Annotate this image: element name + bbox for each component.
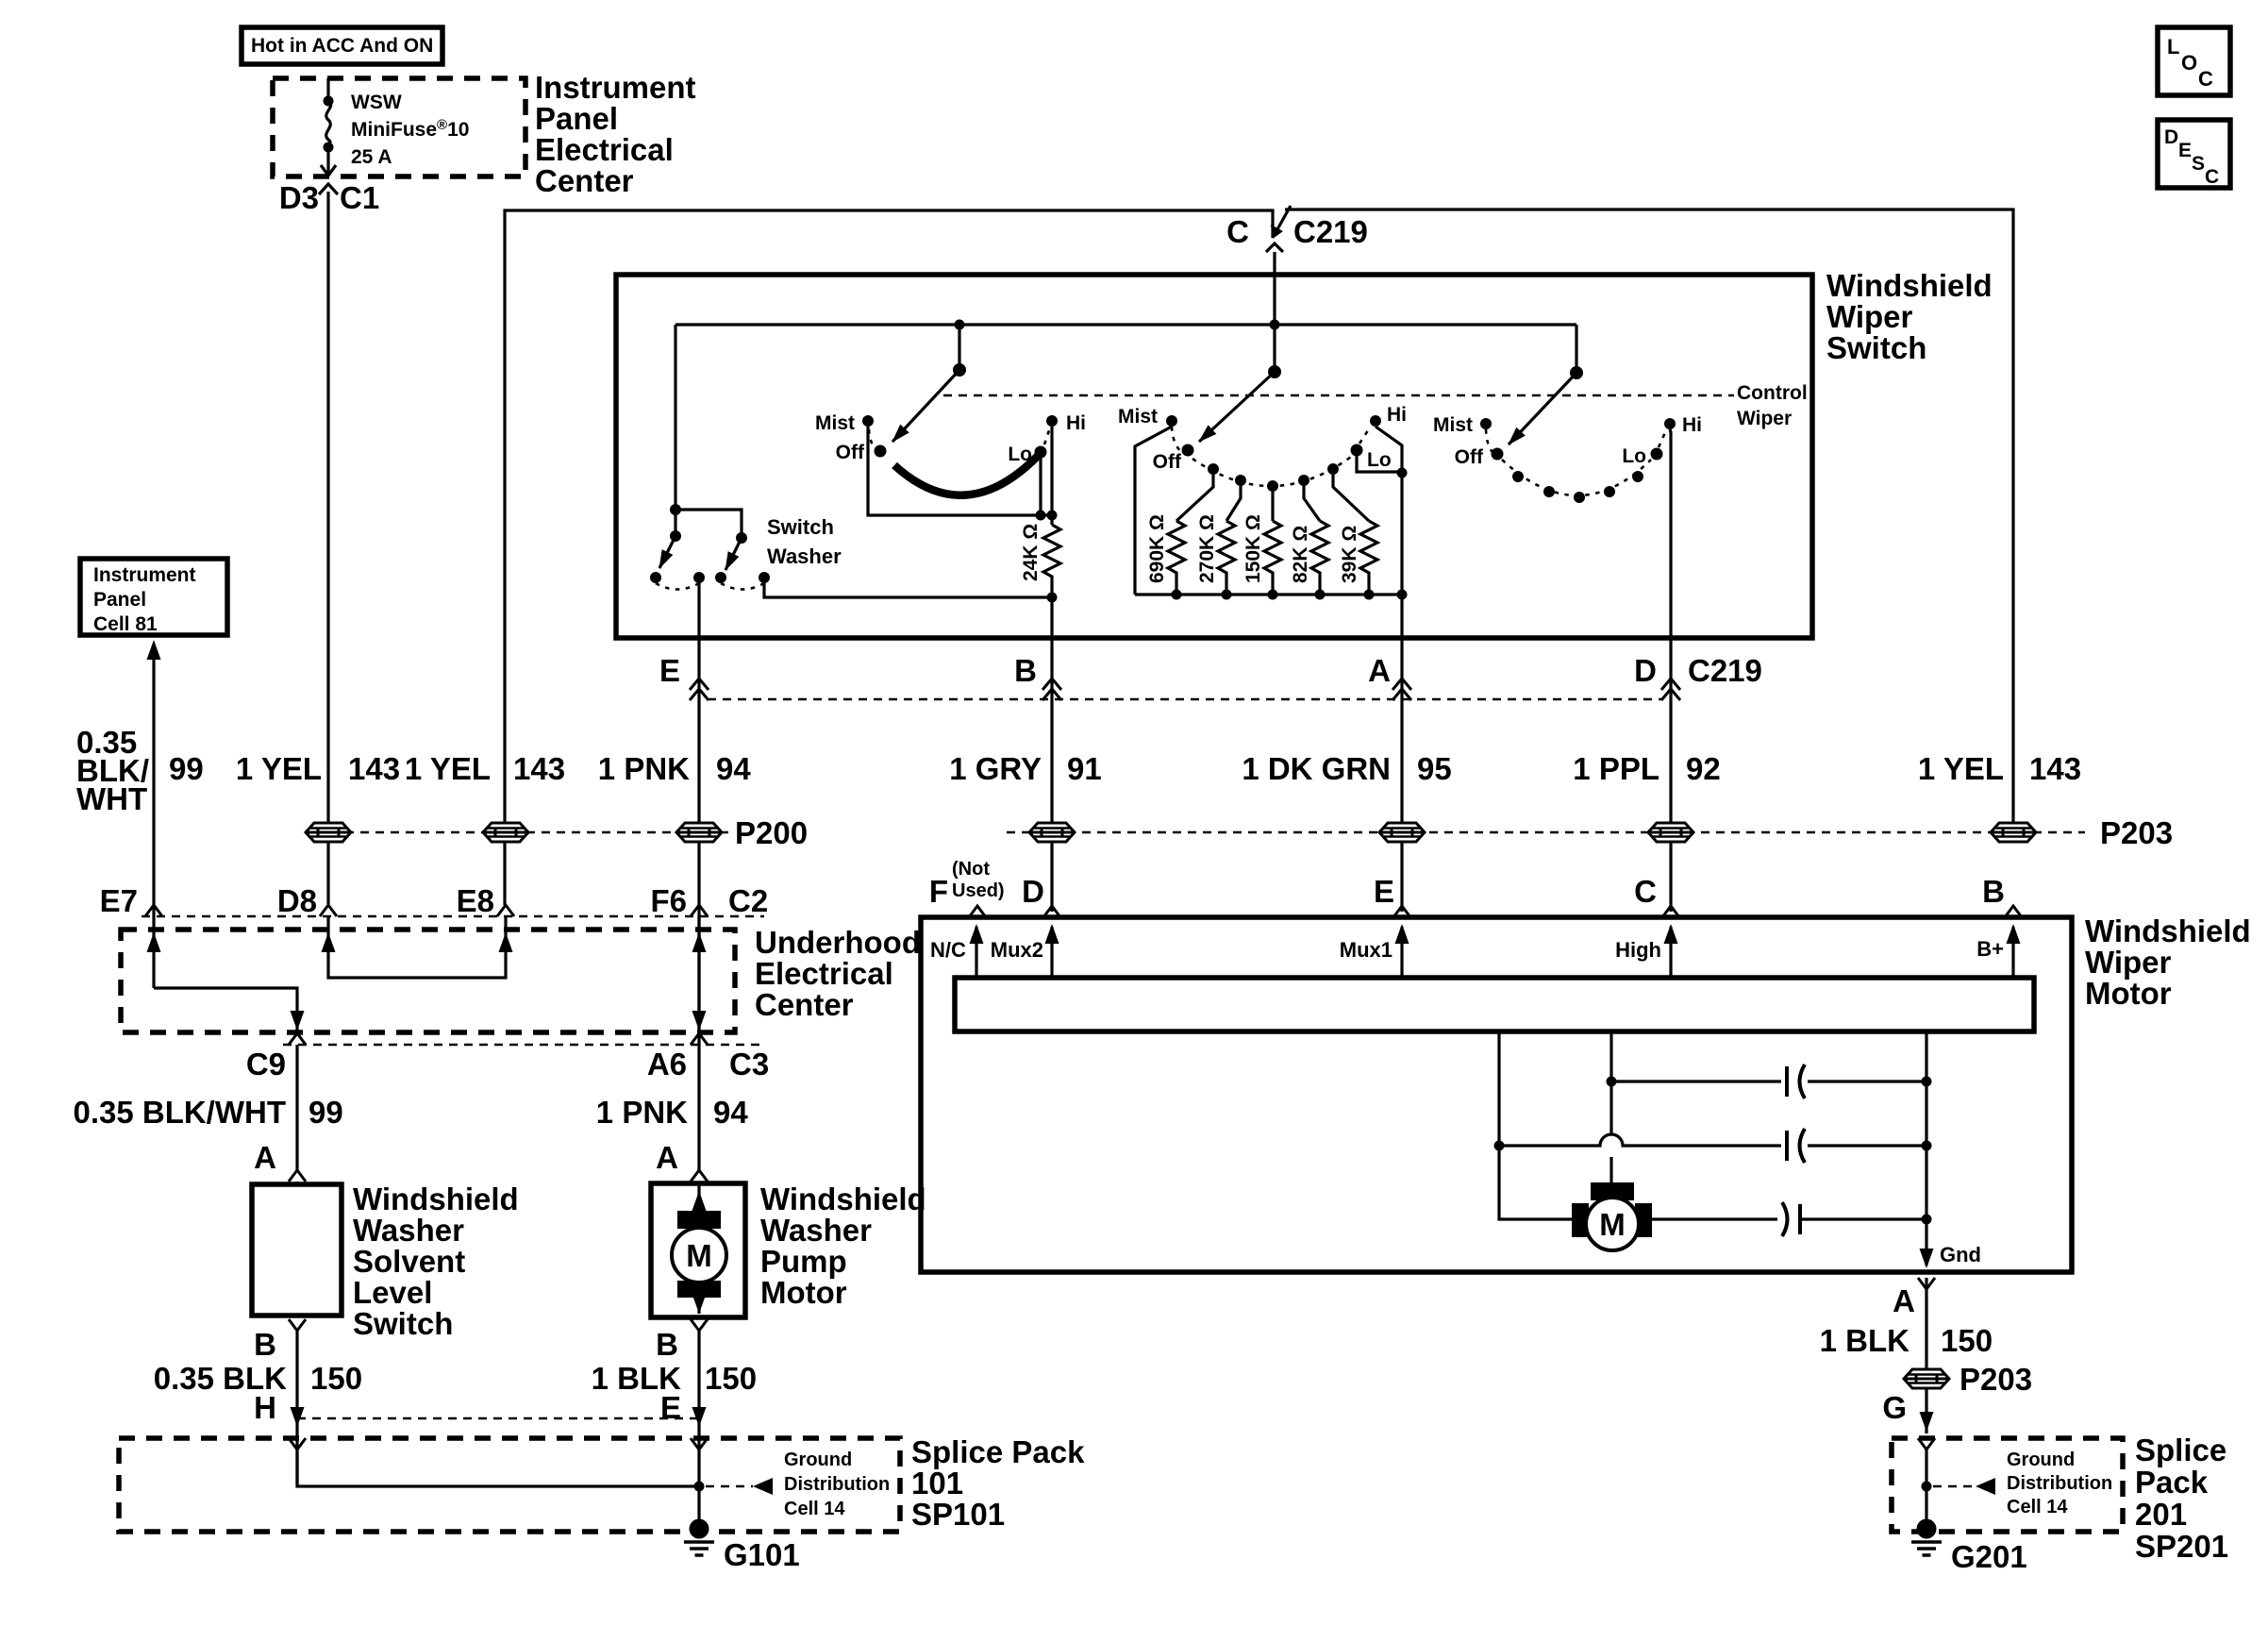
svg-text:E: E xyxy=(659,653,680,688)
grommet P200 on 1 YEL wire xyxy=(306,823,351,842)
wire gnd to P203 xyxy=(1925,1278,1927,1433)
Underhood Electrical Center dashed box xyxy=(121,930,735,1032)
DESC reference box xyxy=(2158,120,2230,188)
connector chevron E8 xyxy=(497,905,514,916)
connector chevron motor B xyxy=(2005,906,2022,917)
wire C2 to C3 through underhood center xyxy=(692,916,707,1031)
svg-text:99: 99 xyxy=(169,751,204,786)
pin High arrow xyxy=(1615,924,1677,978)
wire motor to capacitor 3 xyxy=(1652,1217,1777,1220)
wire capacitor 3 to ground column xyxy=(1800,1215,1932,1225)
wire module to motor armature xyxy=(1609,1031,1612,1081)
svg-text:E7: E7 xyxy=(100,883,138,918)
svg-text:D3: D3 xyxy=(279,180,319,215)
Windshield Wiper Motor box xyxy=(921,917,2072,1272)
svg-text:Mux1: Mux1 xyxy=(1340,938,1392,962)
svg-text:E: E xyxy=(2178,140,2192,161)
grommet P200 dashed row xyxy=(330,831,728,834)
connector chevron motor C xyxy=(1662,906,1679,917)
connector chevron solvent B xyxy=(289,1319,306,1331)
connector chevrons pin A xyxy=(1392,679,1411,700)
label 1 YEL 143 first xyxy=(236,751,400,786)
svg-text:1 BLK: 1 BLK xyxy=(1820,1323,1910,1358)
svg-text:D8: D8 xyxy=(277,883,317,918)
svg-text:P200: P200 xyxy=(735,815,808,850)
LOC reference box xyxy=(2158,27,2230,95)
pin Mux1 arrow xyxy=(1340,924,1409,978)
svg-text:M: M xyxy=(1599,1207,1626,1242)
svg-text:1 DK GRN: 1 DK GRN xyxy=(1242,751,1391,786)
node splice junction 101 xyxy=(694,1482,705,1492)
washer switch feed wire xyxy=(670,325,747,544)
svg-text:B+: B+ xyxy=(1976,937,2004,961)
connector chevron A pump xyxy=(691,1170,708,1182)
svg-text:1 GRY: 1 GRY xyxy=(949,751,1042,786)
wire capacitor row 2 with hop xyxy=(1494,1134,1932,1151)
svg-text:P203: P203 xyxy=(2100,815,2173,850)
svg-text:C9: C9 xyxy=(246,1047,286,1081)
svg-text:B: B xyxy=(1014,653,1037,688)
wire motor left leg xyxy=(1499,1146,1574,1219)
svg-text:143: 143 xyxy=(2029,751,2081,786)
svg-text:C2: C2 xyxy=(728,883,768,918)
svg-text:92: 92 xyxy=(1686,751,1721,786)
svg-text:L: L xyxy=(2167,35,2179,59)
switch 3 dashed throw arcs xyxy=(1486,429,1493,453)
resistor 270K ohm xyxy=(1196,486,1241,600)
svg-text:95: 95 xyxy=(1417,751,1452,786)
svg-text:E8: E8 xyxy=(457,883,494,918)
svg-text:150: 150 xyxy=(310,1361,362,1396)
grommet P200 on 1 PNK wire xyxy=(676,823,722,842)
label 1 PPL 92 xyxy=(1573,751,1720,786)
resistor 82K ohm xyxy=(1290,486,1328,600)
svg-text:High: High xyxy=(1615,938,1661,962)
wire C219 down into switch xyxy=(1273,252,1276,325)
wire pump B down to splice xyxy=(697,1331,700,1486)
switch 1 dashed throw arcs xyxy=(869,429,876,448)
svg-text:1 YEL: 1 YEL xyxy=(236,751,322,786)
wire A into solvent switch xyxy=(295,1182,298,1184)
wire arrow into splice pack 201 xyxy=(1920,1412,1934,1432)
label 1 YEL 143 second xyxy=(405,751,565,786)
switch 3 contacts Mist Off Lo Hi xyxy=(1433,414,1702,503)
switch 2 dashed throw arcs xyxy=(1172,427,1184,454)
svg-text:WSW: WSW xyxy=(351,92,402,113)
ground G201 xyxy=(1911,1519,2027,1575)
wire C9 down to solvent switch xyxy=(295,1045,298,1170)
capacitor 1 xyxy=(1787,1064,1805,1098)
svg-text:150: 150 xyxy=(705,1361,757,1396)
capacitor 2 xyxy=(1787,1129,1805,1163)
svg-text:690K Ω: 690K Ω xyxy=(1146,514,1168,583)
feed label box "Hot in ACC And ON" xyxy=(242,27,442,64)
svg-text:24K Ω: 24K Ω xyxy=(1020,524,1042,581)
svg-text:C219: C219 xyxy=(1688,653,1762,688)
resistor 150K ohm xyxy=(1242,492,1281,600)
wire switch 1 mist contact down xyxy=(868,427,1052,515)
svg-text:1 PNK: 1 PNK xyxy=(596,1095,688,1130)
svg-text:Mist: Mist xyxy=(1118,406,1158,427)
resistor 24K ohm xyxy=(1043,525,1060,597)
svg-text:A: A xyxy=(254,1140,276,1175)
washer switch arm 1 xyxy=(659,536,675,568)
wire top feed horizontal left segment xyxy=(505,210,1273,905)
resistor 690K ohm xyxy=(1146,475,1213,600)
wire module to ground column xyxy=(1925,1031,1927,1081)
label 0.35 BLK/WHT 99 lower xyxy=(73,1095,342,1130)
svg-text:B: B xyxy=(254,1327,276,1362)
svg-text:A6: A6 xyxy=(647,1047,687,1081)
svg-text:S: S xyxy=(2192,153,2205,175)
node switch 1 hi junction xyxy=(1047,511,1058,521)
svg-text:G: G xyxy=(1882,1390,1907,1425)
svg-text:H: H xyxy=(254,1390,276,1425)
wire solvent B down to splice xyxy=(295,1331,298,1486)
svg-text:Off: Off xyxy=(1153,451,1182,473)
svg-text:A: A xyxy=(1368,653,1391,688)
label 1 BLK 150 right xyxy=(1820,1323,1993,1358)
connector chevron C2 xyxy=(691,905,708,916)
control wiper dashed track xyxy=(943,394,1734,397)
washer switch contacts xyxy=(650,572,770,583)
Instrument Panel Electrical Center dashed box xyxy=(273,78,525,176)
svg-text:Mist: Mist xyxy=(1433,414,1473,436)
wire switch output to pin B xyxy=(1050,597,1053,638)
svg-text:N/C: N/C xyxy=(930,938,966,962)
connector chevron splice H xyxy=(289,1438,306,1450)
svg-text:D: D xyxy=(2164,126,2178,148)
Windshield Wiper Switch box xyxy=(616,275,1812,638)
switch 2 contacts Mist Off Lo Hi xyxy=(1118,404,1407,492)
resistor 39K ohm xyxy=(1333,475,1377,600)
wiper arm pivot 2 xyxy=(1199,325,1281,442)
Splice Pack 201 dashed box xyxy=(1892,1438,2123,1532)
svg-text:B: B xyxy=(1982,874,2005,909)
svg-text:Mist: Mist xyxy=(815,412,855,434)
node bus junction 2 xyxy=(1270,320,1280,330)
svg-text:D: D xyxy=(1022,874,1044,909)
svg-text:1 PNK: 1 PNK xyxy=(598,751,690,786)
wire top feed horizontal right segment xyxy=(1285,210,2013,822)
connector chevron F not used xyxy=(969,906,986,917)
svg-text:A: A xyxy=(656,1140,678,1175)
wire fuse output down to P200 xyxy=(326,192,329,822)
svg-text:C1: C1 xyxy=(340,180,379,215)
svg-text:150K Ω: 150K Ω xyxy=(1242,514,1264,583)
wire switch 2 mist contact to ladder rail xyxy=(1135,427,1172,595)
ground distribution dashed arrow 101 xyxy=(706,1450,890,1519)
ground G101 xyxy=(684,1519,800,1573)
wire arrow E into splice xyxy=(692,1407,707,1427)
label 0.35 BLK 150 xyxy=(154,1361,362,1396)
wire arrow H into splice xyxy=(291,1407,305,1427)
svg-text:C219: C219 xyxy=(1293,214,1368,249)
svg-text:Off: Off xyxy=(1455,446,1484,468)
grommet P203 dashed row xyxy=(1007,831,2085,834)
svg-text:39K Ω: 39K Ω xyxy=(1339,526,1360,583)
grommet P203 on 1 YEL wire xyxy=(1991,823,2036,842)
wire pin E down to splice xyxy=(697,638,700,1170)
label 1 BLK 150 left xyxy=(592,1361,757,1396)
connector chevron solvent A xyxy=(289,1170,306,1182)
connector C1 chevron xyxy=(319,184,338,194)
svg-text:Hi: Hi xyxy=(1066,412,1086,434)
svg-text:A: A xyxy=(1893,1283,1915,1318)
resistor ladder rail xyxy=(1135,593,1402,595)
svg-text:O: O xyxy=(2181,51,2197,75)
wire ground column to Gnd pin xyxy=(1920,1081,1982,1268)
svg-text:94: 94 xyxy=(713,1095,748,1130)
wire D8 to E8 link inside underhood center xyxy=(322,916,513,978)
wire switch 2 lo contact branch xyxy=(1357,456,1402,472)
label 1 YEL 143 right xyxy=(1918,751,2081,786)
svg-text:D: D xyxy=(1634,653,1657,688)
node ladder rail junction A xyxy=(1397,590,1408,600)
node splice junction 201 xyxy=(1922,1482,1932,1492)
Windshield Washer Pump Motor xyxy=(651,1183,745,1317)
switch 1 contacts Mist Off Lo Hi xyxy=(815,412,1086,465)
grommet P203 on 1 PPL wire xyxy=(1648,823,1693,842)
svg-text:C: C xyxy=(1226,214,1249,249)
svg-text:C: C xyxy=(2198,67,2213,91)
connector C219 dashed row xyxy=(708,698,1662,701)
connector chevrons pin E xyxy=(690,679,709,700)
wire module to motor left xyxy=(1497,1031,1500,1146)
pin N/C arrow xyxy=(930,924,984,978)
svg-text:F: F xyxy=(929,874,948,909)
connector chevron E7 xyxy=(145,905,162,916)
svg-text:143: 143 xyxy=(348,751,400,786)
Splice Pack 101 dashed box xyxy=(119,1438,900,1532)
pin B+ arrow xyxy=(1976,924,2020,978)
node switch 1 lo junction xyxy=(1036,511,1046,521)
grommet P203 on 1 GRY wire xyxy=(1029,823,1075,842)
svg-text:B: B xyxy=(656,1327,678,1362)
svg-text:Gnd: Gnd xyxy=(1940,1243,1981,1266)
svg-text:82K Ω: 82K Ω xyxy=(1290,526,1311,583)
grommet P200 on 1 YEL wire 2 xyxy=(483,823,528,842)
connector chevron splice G xyxy=(1918,1438,1935,1450)
wire switch 1 lo contact down xyxy=(1039,458,1042,515)
wire pin B down to motor D xyxy=(1050,638,1053,912)
pin Mux2 arrow xyxy=(991,924,1059,978)
ground distribution dashed arrow 201 xyxy=(1933,1450,2112,1517)
svg-text:94: 94 xyxy=(716,751,751,786)
connector row C9-C3 dashed line xyxy=(283,1044,766,1047)
label 1 PNK 94 lower xyxy=(596,1095,749,1130)
label 0.35 BLK/WHT circuit 99 xyxy=(76,725,204,816)
svg-text:E: E xyxy=(1374,874,1394,909)
wiper arm pivot 1 xyxy=(892,325,966,442)
motor control module bar xyxy=(955,978,2034,1031)
fuse WSW MiniFuse 10 25 A xyxy=(321,78,469,176)
svg-text:WHT: WHT xyxy=(76,781,147,816)
svg-text:270K Ω: 270K Ω xyxy=(1196,514,1218,583)
svg-text:25 A: 25 A xyxy=(351,146,392,168)
svg-text:G101: G101 xyxy=(724,1537,800,1572)
svg-text:Lo: Lo xyxy=(1622,445,1646,467)
svg-text:P203: P203 xyxy=(1959,1362,2032,1397)
svg-text:91: 91 xyxy=(1067,751,1102,786)
washer switch arm 2 xyxy=(725,538,742,570)
svg-text:M: M xyxy=(686,1238,712,1273)
svg-text:1 YEL: 1 YEL xyxy=(405,751,491,786)
svg-text:G201: G201 xyxy=(1951,1539,2027,1574)
wire pin A down to motor E xyxy=(1400,638,1403,912)
svg-text:143: 143 xyxy=(513,751,565,786)
svg-text:C: C xyxy=(2205,166,2219,188)
wire E7 feed to instrument panel xyxy=(147,640,161,988)
node switch 2 hi-lo junction xyxy=(1397,468,1408,478)
svg-text:Mux2: Mux2 xyxy=(991,938,1043,962)
svg-text:C: C xyxy=(1634,874,1657,909)
connector chevron pump B xyxy=(691,1319,708,1331)
svg-text:1 PPL: 1 PPL xyxy=(1573,751,1659,786)
svg-text:Off: Off xyxy=(836,442,865,463)
svg-text:99: 99 xyxy=(309,1095,343,1130)
motor M wiper xyxy=(1572,1182,1652,1250)
svg-text:150: 150 xyxy=(1941,1323,1993,1358)
connector chevrons pin B xyxy=(1042,679,1061,700)
wire switch 2 hi contact to pin A xyxy=(1376,427,1402,638)
wire capacitor row 1 xyxy=(1607,1077,1932,1087)
connector row E7-C2 dashed line xyxy=(142,915,764,918)
Windshield Washer Solvent Level Switch box xyxy=(252,1184,342,1316)
node switch 1 output junction xyxy=(1047,593,1058,603)
wire washer output to pin E xyxy=(697,578,700,638)
washer switch dashed arcs xyxy=(656,583,699,590)
wire washer contact to switch output rail xyxy=(764,578,1052,597)
wire splice bus 201 xyxy=(1925,1450,1927,1527)
label 1 PNK 94 xyxy=(598,751,752,786)
wire pin D down to motor C xyxy=(1669,638,1672,912)
svg-text:Hot in ACC And ON: Hot in ACC And ON xyxy=(251,35,433,57)
connector chevron splice E xyxy=(691,1438,708,1450)
svg-text:E: E xyxy=(660,1390,681,1425)
wire armature feed through hop xyxy=(1609,1085,1612,1134)
connector chevron motor D xyxy=(1043,906,1060,917)
label 1 GRY 91 xyxy=(949,751,1102,786)
connector chevron D8 xyxy=(320,905,337,916)
svg-text:0.35 BLK/WHT: 0.35 BLK/WHT xyxy=(73,1095,286,1130)
svg-text:1 YEL: 1 YEL xyxy=(1918,751,2004,786)
svg-text:Hi: Hi xyxy=(1387,404,1407,426)
connector chevrons pin D xyxy=(1661,679,1680,700)
connector chevron C9 xyxy=(289,1033,306,1045)
wire switch internal supply bus xyxy=(675,323,1576,326)
svg-text:MiniFuse®10: MiniFuse®10 xyxy=(351,117,469,141)
connector H-E dashed row xyxy=(297,1417,699,1420)
svg-text:Hi: Hi xyxy=(1682,414,1702,436)
wire switch 3 hi contact to pin D xyxy=(1670,429,1671,638)
node bus junction 1 xyxy=(955,320,965,330)
label 1 DK GRN 95 xyxy=(1242,751,1451,786)
svg-text:Lo: Lo xyxy=(1367,449,1392,471)
wire junction to ground G101 xyxy=(697,1486,700,1527)
wiper arm pivot 3 xyxy=(1509,325,1583,444)
connector chevron C3 xyxy=(691,1033,708,1045)
svg-text:C3: C3 xyxy=(729,1047,769,1081)
capacitor 3 xyxy=(1782,1202,1800,1236)
wire splice bus 101 xyxy=(297,1450,699,1486)
wire E7 jog to C9 inside underhood center xyxy=(154,988,305,1031)
grommet P203 gnd xyxy=(1904,1369,1949,1388)
wire switch 1 hi contact down xyxy=(1050,427,1053,525)
Instrument Panel Cell 81 box xyxy=(80,559,227,635)
svg-text:F6: F6 xyxy=(650,883,687,918)
connector chevron motor A gnd xyxy=(1918,1278,1935,1289)
connector chevron motor E xyxy=(1393,906,1410,917)
switch 1 low-speed contact strip thick arc xyxy=(894,454,1040,495)
connector C219 pass-through arrow xyxy=(1266,206,1291,252)
grommet P203 on 1 DK GRN wire xyxy=(1379,823,1425,842)
